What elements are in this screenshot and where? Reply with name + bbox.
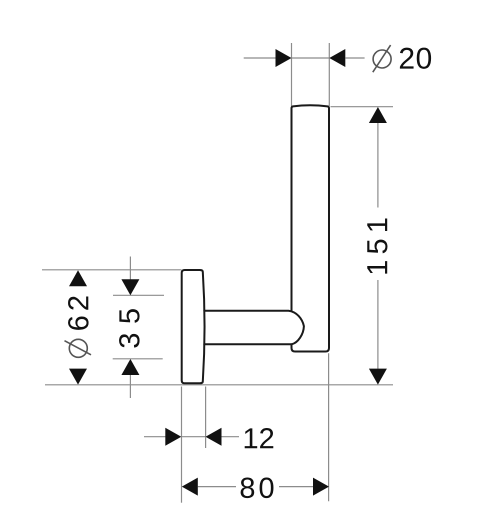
- wall plate (rosette, side view): [182, 270, 205, 383]
- diameter symbol for ⌀20: [373, 45, 391, 72]
- 80 right extension line: [328, 353, 330, 501]
- 12 extension lines: [181, 387, 183, 503]
- diameter symbol for ⌀62 (rotated): [65, 339, 92, 357]
- dimension texts: [68, 48, 431, 498]
- 151 top arrow: [369, 107, 387, 123]
- 80 left arrow (points left): [182, 478, 198, 496]
- text 62 (rotated): [68, 296, 89, 329]
- bottom long extension line (⌀62 / 151): [45, 384, 393, 386]
- 12 left arrow (points right): [165, 428, 181, 446]
- 80 dim line: [198, 486, 236, 488]
- 35 bottom leader: [129, 375, 131, 398]
- ⌀62 top extension line: [42, 269, 182, 271]
- 151 bottom arrow: [369, 369, 387, 385]
- text 35 (rotated): [119, 309, 140, 347]
- 35 top arrow (points down): [121, 279, 139, 295]
- 35 top leader: [129, 257, 131, 281]
- ⌀62 top arrow: [69, 270, 87, 286]
- 12 dim line: [144, 436, 166, 438]
- 80 right arrow (points right): [313, 478, 329, 496]
- 151 top extension line: [331, 106, 394, 108]
- 35 top extension line: [113, 294, 164, 296]
- text 20: [400, 48, 431, 69]
- 12 right arrow (points left): [206, 428, 222, 446]
- ⌀62 bottom arrow: [69, 369, 87, 385]
- 151 dim line: [377, 123, 379, 208]
- text 12: [245, 428, 274, 448]
- 35 bottom extension line: [113, 358, 163, 360]
- ⌀20 left arrow: [276, 49, 292, 67]
- dimension ⌀20 extension lines: [42, 43, 393, 503]
- text 151 (rotated): [367, 218, 387, 273]
- product outline: [182, 105, 329, 383]
- text 80: [241, 478, 274, 499]
- ⌀20 right arrow: [329, 49, 345, 67]
- vertical bar (roll holder pin): [292, 105, 330, 351]
- arm (horizontal support with bullet end): [204, 311, 304, 344]
- dim line ⌀20: [244, 57, 277, 59]
- arrows: [69, 49, 387, 496]
- 35 bottom arrow (points up): [121, 359, 139, 375]
